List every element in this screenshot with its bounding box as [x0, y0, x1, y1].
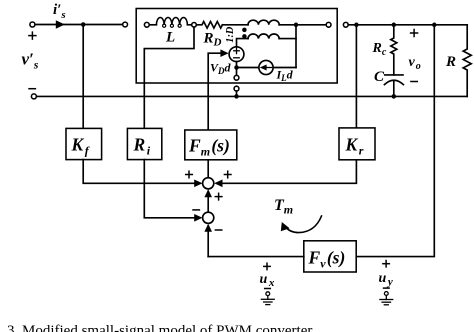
node: K_r tap: [354, 23, 359, 28]
wire: summer2 to summer1: [207, 192, 209, 213]
wire: bottom port to rail: [236, 91, 238, 96]
label + (v_o): [411, 32, 418, 34]
capacitor C: [385, 74, 403, 76]
label + (u_y): [383, 263, 389, 265]
label − (source): [29, 88, 35, 90]
svg-text:VDd: VDd: [210, 61, 232, 77]
block F_m(s): [185, 130, 237, 160]
label − (u_x): [265, 288, 271, 290]
block K_f: [66, 128, 102, 159]
terminal: box right port outside: [343, 22, 348, 27]
resistor R_c: [391, 25, 397, 75]
wire: secondary right lead: [279, 38, 296, 40]
ground under u_y: [380, 292, 393, 305]
label − (v_o): [411, 81, 417, 83]
inductor L: [156, 18, 187, 25]
wire: feedback into summer2 from below: [207, 226, 209, 257]
wire: vertical from output node to I_Ld: [295, 25, 297, 68]
wire: top rail right section: [348, 24, 467, 26]
ground under u_x: [261, 292, 274, 305]
svg-text:Rc: Rc: [372, 41, 387, 58]
wire: V_Dd bottom to node: [236, 62, 238, 68]
svg-text:Fv(s): Fv(s): [308, 248, 346, 271]
resistor R load: [463, 25, 471, 97]
block R_i: [127, 128, 161, 159]
node: C bottom on rail: [392, 94, 397, 99]
wire: K_r feed down: [355, 25, 357, 128]
wire+arrow: d control into V_Dd and down to F_m: [208, 53, 220, 130]
transformer primary winding: [248, 20, 279, 25]
node: R_c branch tap: [392, 23, 397, 28]
svg-text:C: C: [374, 69, 385, 85]
wire: secondary left lead to V_Dd: [237, 39, 249, 47]
summer 2 lower: [203, 212, 214, 223]
resistor R_D: [196, 22, 222, 29]
wire: output node to box edge: [298, 24, 326, 26]
label − (summer2 left): [193, 209, 199, 211]
block K_r: [339, 128, 375, 160]
terminal: box right port inside: [326, 22, 331, 27]
node: L to R_D circle: [192, 23, 197, 28]
wire: inside left lead to L: [149, 24, 156, 26]
label − (u_y): [384, 287, 390, 289]
wire: R_D to transformer primary: [222, 24, 248, 26]
svg-text:uy: uy: [379, 271, 393, 288]
label + (u_x): [264, 265, 270, 267]
svg-text:R: R: [445, 54, 456, 70]
wire: v_o sense down to F_v: [356, 25, 434, 257]
svg-text:ux: ux: [260, 272, 275, 289]
transformer polarity dot upper: [242, 28, 247, 33]
wire: node to I_Ld source: [237, 67, 260, 69]
block F_v(s): [304, 241, 356, 272]
label + (summer1 right): [224, 174, 231, 176]
curved arrow T_m: [286, 216, 322, 233]
svg-text:L: L: [165, 30, 175, 46]
wire: I_Ld right lead to vertical: [273, 67, 296, 69]
wire: R_i output to summer2: [144, 160, 194, 218]
svg-text:3. Modified small-signal model: 3. Modified small-signal model of PWM co…: [7, 323, 312, 332]
wire: box bottom terminal: [236, 68, 238, 76]
svg-text:1:D: 1:D: [225, 26, 236, 43]
svg-text:Tm: Tm: [274, 197, 293, 217]
terminal: box bottom port inside: [234, 75, 239, 80]
terminal: box left port outside: [123, 22, 128, 27]
wire: i_L sense jog down to R_i: [144, 27, 194, 128]
transformer polarity dot lower: [242, 34, 247, 39]
source I_Ld dependent current: [259, 60, 273, 74]
label + (source): [29, 30, 418, 289]
node: below V_Dd: [234, 65, 239, 70]
svg-text:v′s: v′s: [22, 50, 39, 72]
svg-text:RD: RD: [203, 31, 222, 49]
wire: summer1 to F_m input: [207, 160, 209, 178]
label − (summer2 bottom): [215, 229, 221, 231]
wire: K_f output to summer1: [83, 160, 194, 184]
wire: v_s sense down to K_f: [82, 25, 84, 129]
terminal: source −: [31, 94, 36, 99]
current arrow i_s': [56, 20, 65, 28]
wire: feedback line summer2 to F_v: [208, 256, 304, 258]
terminal: box bottom port outside: [234, 86, 239, 91]
source V_Dd dependent voltage: [229, 47, 244, 62]
node: top-left junction: [81, 22, 86, 27]
label + (summer1 left): [186, 174, 193, 176]
wire: bottom rail: [37, 95, 468, 97]
wire: K_r output to summer1: [222, 160, 356, 184]
terminal: source +: [30, 22, 35, 27]
node: primary output junction: [294, 23, 299, 28]
wire: primary to output node: [279, 24, 296, 26]
summer 1 upper: [203, 178, 214, 189]
transformer secondary winding: [248, 34, 279, 39]
label + (summer1 bottom): [215, 196, 222, 198]
node: F_v sense tap: [432, 23, 437, 28]
svg-text:vo: vo: [409, 55, 421, 72]
node: on bottom rail below box: [234, 94, 239, 99]
svg-text:ILd: ILd: [276, 68, 294, 84]
converter box outline: [136, 9, 337, 84]
svg-text:i′s: i′s: [53, 2, 66, 21]
wire: top rail left (source to box): [35, 24, 122, 26]
terminal: box left port inside: [144, 22, 149, 27]
